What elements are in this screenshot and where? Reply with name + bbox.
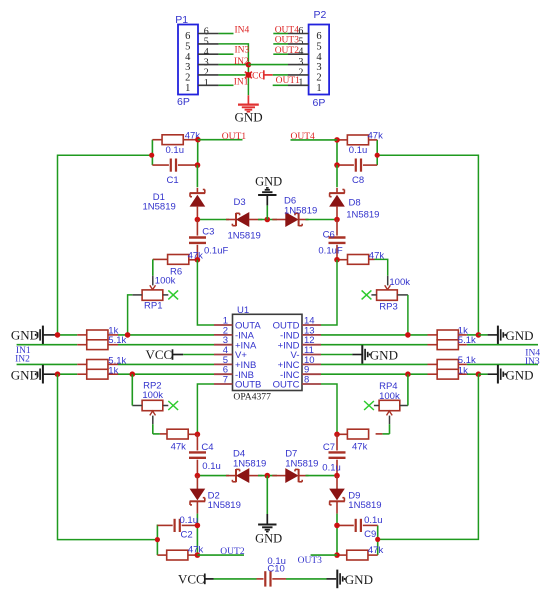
junction C2 right xyxy=(195,523,201,529)
label IN1 xyxy=(234,77,249,87)
junction row13 RP3 xyxy=(405,332,411,338)
svg-text:2: 2 xyxy=(185,73,190,84)
junction 47k/C7 xyxy=(334,432,340,438)
resistor 47k lower-left xyxy=(153,429,198,453)
svg-text:6: 6 xyxy=(185,31,190,42)
junction row13 right xyxy=(476,332,482,338)
svg-text:C2: C2 xyxy=(181,530,193,541)
resistor 47k bottom-right xyxy=(337,545,383,560)
svg-text:C1: C1 xyxy=(167,175,179,186)
resistor 5.1k row10 xyxy=(321,355,538,369)
svg-text:GND: GND xyxy=(345,572,373,587)
wire C1 to D1 xyxy=(196,165,198,187)
resistor 47k bottom-left xyxy=(157,545,203,560)
power port VCC bottom xyxy=(178,572,214,587)
capacitor C2 xyxy=(157,515,198,541)
wire row6 to pin6 xyxy=(118,373,214,375)
potentiometer RP1 xyxy=(132,275,175,311)
svg-text:OUTC: OUTC xyxy=(273,380,300,391)
junction C1 right xyxy=(195,162,201,168)
svg-text:5.1k: 5.1k xyxy=(458,335,476,346)
wire OUT3 xyxy=(311,554,337,556)
wire P1 pin2 xyxy=(219,74,246,76)
junction center top xyxy=(265,217,271,223)
resistor 1k row9 xyxy=(321,365,478,379)
svg-text:6: 6 xyxy=(298,26,303,37)
resistor 5.1k row5 xyxy=(17,356,127,370)
svg-text:0.1u: 0.1u xyxy=(322,462,341,473)
label OUT3 xyxy=(298,556,323,566)
wire D1 to D3 xyxy=(197,219,229,221)
wire D6 to D8 xyxy=(306,219,338,221)
power port GND pin11 xyxy=(321,345,398,364)
wire pin14 OUTD xyxy=(321,260,337,325)
junction 47k/OUT4 xyxy=(334,137,340,143)
junction C9 left xyxy=(334,523,340,529)
svg-text:6P: 6P xyxy=(313,97,326,109)
svg-text:1N5819: 1N5819 xyxy=(143,202,176,213)
label OUT4 top xyxy=(275,25,300,35)
svg-text:OUTB: OUTB xyxy=(235,380,261,391)
junction at VCC crossing xyxy=(246,72,252,78)
junction row6 RP2 xyxy=(130,371,136,377)
capacitor C4 xyxy=(189,434,221,475)
svg-text:P2: P2 xyxy=(314,9,327,21)
junction D1 bottom xyxy=(195,217,201,223)
svg-text:VCC: VCC xyxy=(178,572,205,587)
label IN1 xyxy=(16,346,31,356)
svg-text:100k: 100k xyxy=(155,275,176,286)
op-amp U1 xyxy=(214,305,321,402)
label OUT4 xyxy=(291,132,316,142)
wire RP4 to -INC node xyxy=(407,374,409,405)
junction D8 bottom xyxy=(334,217,340,223)
svg-text:1: 1 xyxy=(204,78,209,89)
svg-text:0.1u: 0.1u xyxy=(364,515,383,526)
junction bracket bottom-left xyxy=(155,537,160,542)
connector P2 xyxy=(288,9,329,109)
svg-text:1N5819: 1N5819 xyxy=(233,458,266,469)
ground GND row6 left xyxy=(11,365,56,384)
diode D2 xyxy=(190,476,241,514)
svg-text:RP1: RP1 xyxy=(144,300,162,311)
wire row2 to pin2 xyxy=(118,334,214,336)
svg-text:C8: C8 xyxy=(352,175,364,186)
diode D1 xyxy=(143,188,206,220)
svg-text:C4: C4 xyxy=(201,442,213,453)
wire right loop bottom xyxy=(378,374,479,539)
diode D7 xyxy=(272,449,318,483)
resistor 1k row6 xyxy=(58,366,119,380)
no-connect X RP2 xyxy=(168,401,178,410)
wire P1 pin6 net IN4 xyxy=(219,33,234,35)
svg-text:7: 7 xyxy=(223,374,228,385)
svg-text:GND: GND xyxy=(11,328,39,343)
bracket top-left xyxy=(151,140,153,165)
svg-text:47k: 47k xyxy=(171,442,187,453)
svg-text:47k: 47k xyxy=(368,545,384,556)
capacitor C3 xyxy=(189,220,228,260)
diode D9 xyxy=(329,476,381,514)
resistor R6 xyxy=(153,250,203,277)
capacitor C6 xyxy=(318,220,345,260)
svg-text:0.1u: 0.1u xyxy=(202,461,221,472)
ground GND row2 left xyxy=(11,326,56,345)
svg-text:0.1u: 0.1u xyxy=(166,145,185,156)
no-connect X RP1 xyxy=(168,290,178,299)
resistor 47k top-left xyxy=(152,131,200,145)
diode D6 xyxy=(272,195,317,226)
bracket bottom-left xyxy=(156,525,158,556)
svg-text:IN2: IN2 xyxy=(15,354,30,364)
wire P2 pin3 xyxy=(248,64,288,66)
wire pin8 OUTC xyxy=(321,384,337,434)
wire left loop top xyxy=(58,155,152,335)
potentiometer RP4 xyxy=(374,381,408,434)
svg-text:1: 1 xyxy=(185,83,190,94)
junction row9 right xyxy=(476,371,482,377)
potentiometer RP3 xyxy=(371,276,410,313)
power port GND top (red earth) xyxy=(235,95,263,124)
label IN2 xyxy=(15,354,30,364)
svg-text:6P: 6P xyxy=(177,96,190,108)
power port GND mid-bottom xyxy=(255,476,282,546)
wire center segment xyxy=(258,219,277,221)
capacitor C10 xyxy=(257,556,287,587)
junction bracket xyxy=(149,153,154,158)
svg-text:GND: GND xyxy=(235,110,263,125)
svg-text:P1: P1 xyxy=(175,14,188,26)
svg-text:C7: C7 xyxy=(323,442,335,453)
wire D7 to D9 xyxy=(306,475,338,477)
svg-text:1N5819: 1N5819 xyxy=(285,458,318,469)
potentiometer RP2 xyxy=(132,380,168,434)
wire pin7 OUTB xyxy=(197,384,214,434)
connector P1 xyxy=(175,14,218,108)
svg-text:8: 8 xyxy=(304,374,309,385)
svg-text:1N5819: 1N5819 xyxy=(348,500,381,511)
label IN4 xyxy=(525,348,540,358)
wire to RP3 wiper xyxy=(375,259,388,275)
wire OUT2 xyxy=(197,554,244,556)
svg-text:VCC: VCC xyxy=(146,347,173,362)
resistor 1k row2 xyxy=(58,325,119,339)
svg-text:U1: U1 xyxy=(237,305,249,316)
wire RP3 to -IND node xyxy=(407,295,409,335)
svg-text:1: 1 xyxy=(316,83,321,94)
svg-text:C6: C6 xyxy=(323,229,335,240)
no-connect X at VCC xyxy=(245,72,252,79)
no-connect X RP3 xyxy=(362,290,372,299)
svg-text:4: 4 xyxy=(298,47,303,58)
wire left side of combo xyxy=(336,140,338,165)
ground GND row9 right xyxy=(478,365,533,384)
wire C10 to GND xyxy=(286,578,327,580)
wire OUT4 xyxy=(291,139,338,141)
junction row9 RP4 xyxy=(405,371,411,377)
svg-text:4: 4 xyxy=(185,52,191,63)
junction row2 left xyxy=(55,332,61,338)
bracket top-right xyxy=(376,140,378,165)
svg-text:1N5819: 1N5819 xyxy=(284,205,317,216)
junction D2 top xyxy=(195,473,201,479)
resistor 5.1k row12 xyxy=(321,335,538,349)
wire C8 to D8 xyxy=(336,165,338,187)
resistor 47k lower-right xyxy=(337,429,390,453)
resistor 1k row13 xyxy=(321,325,478,339)
wire row3 to pin3 xyxy=(118,344,214,346)
junction bracket bottom-right xyxy=(375,537,380,542)
wire P2 pin6 xyxy=(273,33,288,35)
wire D2 to OUT2 node xyxy=(196,514,198,556)
svg-text:0.1u: 0.1u xyxy=(349,145,368,156)
svg-text:GND: GND xyxy=(370,348,398,363)
svg-text:GND: GND xyxy=(255,175,282,189)
junction center bottom xyxy=(265,473,271,479)
svg-text:GND: GND xyxy=(11,367,39,382)
junction 47k/OUT1 xyxy=(195,137,201,143)
power port GND bottom xyxy=(327,570,373,589)
label OUT1 xyxy=(222,132,247,142)
svg-text:D8: D8 xyxy=(349,198,361,209)
svg-text:2: 2 xyxy=(316,73,321,84)
svg-text:0.1uF: 0.1uF xyxy=(204,246,228,257)
wire P1 pin4 net IN3 xyxy=(219,53,234,55)
wire left loop bottom xyxy=(58,374,158,539)
wire R6 to RP1 wiper xyxy=(152,259,154,275)
label IN4 xyxy=(235,25,250,35)
svg-text:GND: GND xyxy=(255,532,282,546)
svg-text:2: 2 xyxy=(298,67,303,78)
capacitor C1 xyxy=(152,145,197,186)
power port VCC top xyxy=(245,70,272,81)
svg-text:OUT3: OUT3 xyxy=(298,556,323,566)
wire right side of combo xyxy=(197,140,199,165)
wire P1 pin1 xyxy=(219,84,234,86)
capacitor C7 xyxy=(322,434,345,475)
wire OUT1 xyxy=(198,139,243,141)
junction 47k/OUT3 xyxy=(334,552,340,558)
svg-text:OUT4: OUT4 xyxy=(291,132,316,142)
capacitor C8 xyxy=(337,145,377,186)
svg-text:IN4: IN4 xyxy=(235,25,250,35)
svg-text:OUT2: OUT2 xyxy=(220,547,245,557)
resistor 5.1k row3 xyxy=(17,335,127,349)
wire center segment bottom xyxy=(258,475,277,477)
wire VCC to C10 xyxy=(214,578,257,580)
diode D3 xyxy=(226,197,262,242)
bracket bottom-right xyxy=(377,525,379,555)
svg-text:1k: 1k xyxy=(458,365,468,376)
junction 47k/C4 xyxy=(195,432,201,438)
svg-text:GND: GND xyxy=(505,328,533,343)
svg-text:1k: 1k xyxy=(108,366,118,377)
label OUT2 xyxy=(220,547,245,557)
wire VCC to pin4 xyxy=(183,354,214,356)
svg-text:IN3: IN3 xyxy=(525,357,540,367)
junction C8 left xyxy=(334,162,340,168)
wire P1 pin5 to vertical xyxy=(219,44,249,95)
junction 47k/OUT2 xyxy=(195,552,201,558)
resistor 47k top-right xyxy=(337,131,383,145)
svg-text:C10: C10 xyxy=(267,564,284,575)
junction bracket right xyxy=(375,153,380,158)
wire VCC to P2 pin2 xyxy=(273,74,288,76)
label OUT3 top xyxy=(275,36,300,46)
svg-text:2: 2 xyxy=(204,68,209,79)
power port VCC left xyxy=(146,347,184,362)
svg-text:C9: C9 xyxy=(364,529,376,540)
svg-text:GND: GND xyxy=(505,367,533,382)
wire D9 to OUT3 node xyxy=(336,514,338,556)
svg-text:4: 4 xyxy=(316,52,322,63)
wire D2 to D4 xyxy=(197,475,229,477)
wire P2 pin4 xyxy=(273,53,288,55)
no-connect X RP4 xyxy=(364,401,374,410)
svg-text:1N5819: 1N5819 xyxy=(228,231,261,242)
junction R6/C3 xyxy=(195,257,201,263)
svg-text:RP3: RP3 xyxy=(379,302,397,313)
wire RP1 to -INA node xyxy=(128,295,133,335)
label OUT1 top xyxy=(276,76,301,86)
ground GND row13 right xyxy=(478,326,533,345)
svg-text:OUT1: OUT1 xyxy=(222,132,247,142)
svg-text:100k: 100k xyxy=(389,277,410,288)
svg-text:OPA4377: OPA4377 xyxy=(233,391,271,402)
capacitor C9 xyxy=(337,515,383,540)
wire P2 pin5 xyxy=(273,43,288,45)
svg-text:6: 6 xyxy=(204,26,209,37)
svg-text:C3: C3 xyxy=(202,226,214,237)
svg-text:D3: D3 xyxy=(234,197,246,208)
wire P2 pin1 xyxy=(273,84,288,86)
svg-text:1N5819: 1N5819 xyxy=(208,500,241,511)
label IN2 xyxy=(234,57,249,67)
svg-text:1N5819: 1N5819 xyxy=(346,210,379,221)
junction 47k/C6 xyxy=(334,257,340,263)
label IN3 xyxy=(525,357,540,367)
junction row2 RP1 xyxy=(125,332,131,338)
wire pin1 OUTA xyxy=(197,260,214,325)
svg-text:0.1uF: 0.1uF xyxy=(318,246,342,257)
svg-text:4: 4 xyxy=(204,47,209,58)
junction top center xyxy=(246,62,252,68)
svg-text:6: 6 xyxy=(316,31,321,42)
resistor 47k upper-right xyxy=(337,250,384,264)
label OUT2 top xyxy=(275,46,300,56)
wire row5 to pin5 xyxy=(118,363,214,365)
svg-text:1: 1 xyxy=(298,78,303,89)
svg-text:47k: 47k xyxy=(352,442,368,453)
junction D9 top xyxy=(334,473,340,479)
wire RP2 to -INB node xyxy=(131,374,133,405)
power port GND mid-top xyxy=(255,175,282,220)
wire P1 pin3 net IN2 xyxy=(219,64,249,66)
junction row6 left xyxy=(55,371,61,377)
wire right loop top xyxy=(377,155,478,335)
diode D8 xyxy=(329,188,379,221)
svg-text:47k: 47k xyxy=(368,131,384,142)
diode D4 xyxy=(226,449,266,483)
label IN3 xyxy=(235,46,250,56)
svg-text:IN3: IN3 xyxy=(235,46,250,56)
